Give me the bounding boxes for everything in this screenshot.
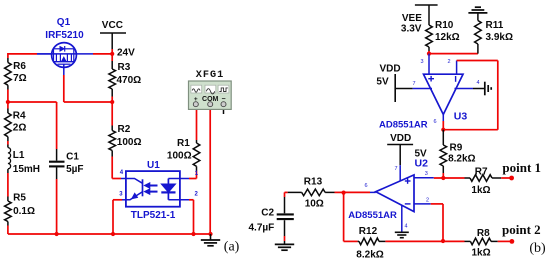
svg-text:R11: R11 [486,20,504,31]
svg-text:4.7µF: 4.7µF [249,222,275,233]
svg-text:Q1: Q1 [57,17,71,28]
svg-text:(a): (a) [224,239,240,254]
svg-text:2: 2 [426,198,429,204]
svg-text:5µF: 5µF [66,164,83,175]
svg-text:7Ω: 7Ω [13,73,27,84]
svg-text:R4: R4 [13,111,26,122]
svg-text:6: 6 [434,119,437,125]
svg-text:C1: C1 [66,152,79,163]
svg-text:4: 4 [477,80,480,86]
svg-text:3: 3 [425,171,428,177]
svg-text:AD8551AR: AD8551AR [379,119,428,130]
svg-text:TLP521-1: TLP521-1 [131,210,176,221]
svg-text:24V: 24V [117,48,135,59]
svg-text:point 2: point 2 [502,222,541,237]
svg-text:100Ω: 100Ω [117,137,142,148]
svg-text:R8: R8 [477,228,490,239]
svg-text:7: 7 [395,166,398,172]
svg-text:COM: COM [202,96,219,103]
svg-text:VCC: VCC [102,20,123,31]
svg-text:VDD: VDD [390,133,411,144]
svg-text:R13: R13 [304,177,323,188]
svg-text:3: 3 [421,59,424,65]
svg-text:8.2kΩ: 8.2kΩ [356,250,383,261]
svg-text:R6: R6 [13,61,26,72]
svg-text:IRF5210: IRF5210 [45,30,84,41]
svg-text:100Ω: 100Ω [167,150,192,161]
svg-text:L1: L1 [13,150,25,161]
svg-text:U1: U1 [147,160,160,171]
svg-text:−: − [221,96,225,103]
svg-text:10Ω: 10Ω [305,199,324,210]
svg-text:4: 4 [405,224,408,230]
svg-text:2Ω: 2Ω [13,123,27,134]
svg-text:U2: U2 [415,157,429,169]
svg-text:R10: R10 [435,20,454,31]
svg-text:1kΩ: 1kΩ [472,247,491,258]
svg-text:R2: R2 [118,124,131,135]
svg-text:8.2kΩ: 8.2kΩ [448,153,475,164]
svg-text:(b): (b) [529,241,546,256]
svg-text:R7: R7 [475,167,488,178]
svg-text:U3: U3 [454,111,468,123]
svg-text:0.1Ω: 0.1Ω [13,206,35,217]
svg-text:+: + [194,96,198,103]
svg-text:XFG1: XFG1 [196,70,224,81]
svg-text:5V: 5V [376,77,389,88]
svg-text:R12: R12 [359,226,378,237]
svg-text:3.9kΩ: 3.9kΩ [486,32,513,43]
svg-text:3.3V: 3.3V [401,24,422,35]
svg-text:7: 7 [413,81,416,87]
svg-text:2: 2 [448,59,451,65]
svg-text:R9: R9 [450,142,463,153]
svg-text:470Ω: 470Ω [117,75,142,86]
svg-text:point 1: point 1 [502,160,541,175]
svg-text:R5: R5 [13,193,26,204]
svg-text:15mH: 15mH [13,164,40,175]
svg-text:AD8551AR: AD8551AR [348,210,397,221]
svg-text:C2: C2 [261,208,274,219]
svg-text:R1: R1 [177,138,190,149]
svg-text:R3: R3 [118,62,131,73]
svg-text:VDD: VDD [380,64,401,75]
svg-text:12kΩ: 12kΩ [435,32,460,43]
svg-text:6: 6 [365,183,368,189]
svg-text:1kΩ: 1kΩ [471,185,490,196]
